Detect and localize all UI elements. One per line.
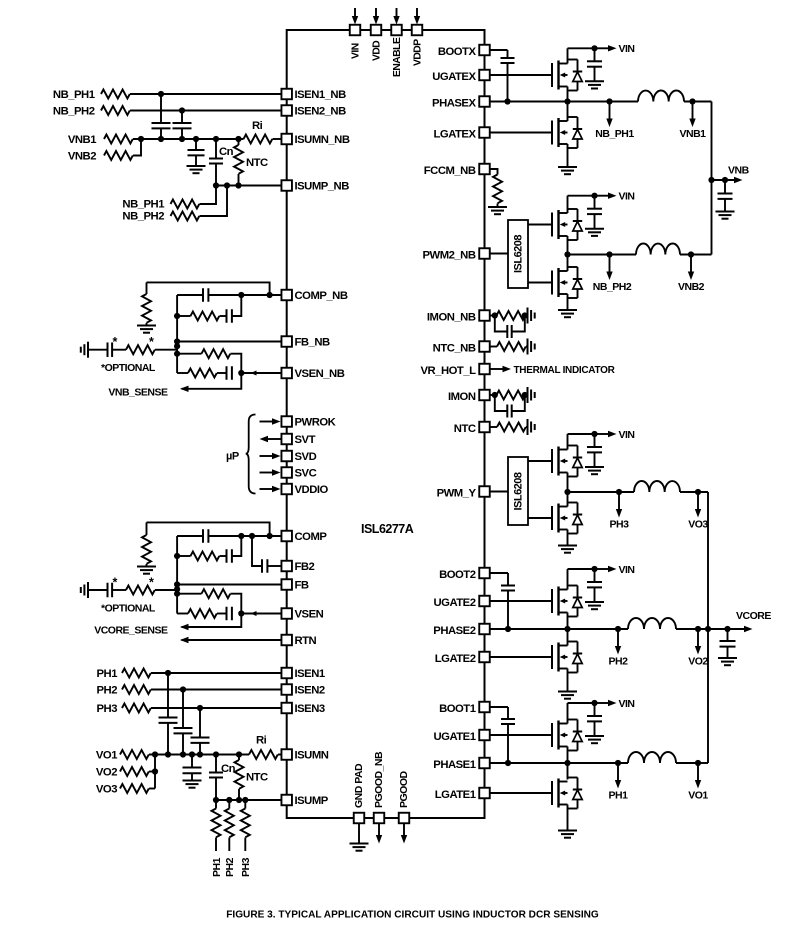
pin GND PAD [354, 813, 365, 824]
resistor PH3 (ISEN3) [97, 703, 151, 715]
pin LGATE2 [479, 652, 490, 663]
svg-text:PH1: PH1 [211, 857, 223, 877]
ground VIN cap X [585, 81, 604, 88]
wire ISUMN line [149, 754, 249, 756]
capacitor COMP_NB C3 [217, 366, 232, 380]
pin label UGATE1 [434, 731, 476, 743]
node VIN arrow 1 [595, 700, 617, 706]
svg-text:COMP_NB: COMP_NB [295, 290, 348, 302]
svg-text:VDDIO: VDDIO [295, 484, 329, 496]
svg-text:NB_PH2: NB_PH2 [53, 106, 95, 118]
junction VIN 1 [591, 700, 597, 706]
pin VR_HOT_L [479, 364, 490, 375]
svg-text:PH2: PH2 [224, 857, 236, 877]
pin label GND PAD [353, 763, 365, 808]
pin label FCCM_NB [424, 165, 476, 177]
junction ISUMN x200 [197, 751, 203, 757]
pin label IMON_NB [427, 311, 476, 323]
ground VNB cap [716, 212, 735, 219]
junction ISUMN x168 [165, 751, 171, 757]
wire Q1 drain [567, 703, 569, 724]
wire COMP rail [176, 536, 178, 614]
svg-text:Cn: Cn [219, 146, 234, 158]
wire VNB rail upper [711, 102, 713, 255]
wire QNB2 drain [567, 196, 569, 213]
IC U1 label ISL6277A [361, 522, 414, 536]
svg-text:Ri: Ri [256, 735, 267, 747]
pin ENABLE [391, 25, 402, 36]
resistor COMP_NB R2 [177, 349, 230, 358]
wire Ri to ISUMN pin [278, 754, 282, 756]
svg-text:IMON_NB: IMON_NB [427, 311, 476, 323]
junction ISUMN x216 [213, 751, 219, 757]
label VIN 1 [619, 698, 635, 710]
node VIN arrow NB2 [595, 193, 617, 199]
capacitor bootstrap 1 [501, 707, 515, 763]
ground IMON (sideways) [528, 387, 535, 403]
svg-text:PH3: PH3 [610, 519, 630, 531]
wire QNB2 source [567, 236, 569, 255]
pin label UGATEX [432, 71, 476, 83]
pin PHASEX [479, 96, 490, 107]
capacitor COMP optional [88, 583, 112, 598]
label VO1 [688, 790, 708, 802]
label VIN Y [619, 429, 635, 441]
junction COMP/FB2 tap [249, 533, 255, 539]
pin label PWROK [295, 417, 337, 429]
svg-text:ISEN1_NB: ISEN1_NB [295, 89, 347, 101]
svg-text:PGOOD_NB: PGOOD_NB [373, 751, 385, 808]
pin SVC [281, 467, 292, 478]
junction COMP_NB rail fb [174, 338, 180, 344]
junction COMP vsen [238, 610, 244, 616]
input arrow PWROK [260, 418, 281, 424]
label VIN NB2 [619, 191, 635, 203]
pin label ISUMP [295, 795, 329, 807]
pin label LGATE1 [435, 789, 476, 801]
pin label ISEN1 [295, 668, 325, 680]
ground IMON_NB (sideways) [528, 308, 535, 324]
junction COMP rail fb [174, 581, 180, 587]
svg-text:PWM_Y: PWM_Y [437, 487, 477, 499]
pin RTN [281, 635, 292, 646]
junction VIN NB2 [591, 193, 597, 199]
junction NB_PH2 phase [606, 251, 612, 257]
wire L1 to VO1 [676, 762, 698, 764]
svg-text:VDDP: VDDP [413, 39, 424, 66]
svg-text:PGOOD: PGOOD [398, 770, 410, 808]
wire COMP r2 down [231, 594, 242, 614]
resistor PH1 (ISUMP) [212, 800, 221, 851]
svg-text:NTC_NB: NTC_NB [433, 342, 476, 354]
wire ISEN2 [151, 689, 282, 691]
capacitor bootstrap X [501, 50, 515, 102]
svg-text:VSEN_NB: VSEN_NB [295, 368, 345, 380]
wire COMP_NB rail [176, 295, 178, 373]
junction ISUMN x192 [189, 751, 195, 757]
input arrow VIN [352, 8, 358, 25]
wire COMP_NB comp pin [241, 294, 281, 296]
output arrow VR_HOT_L [490, 366, 511, 372]
pin label SVD [295, 451, 317, 463]
wire QX2 source [567, 144, 569, 167]
pin label COMP [295, 531, 328, 543]
junction VNB1/VNB2 [138, 136, 144, 142]
junction VCORE cap [724, 626, 730, 632]
label COMP_NB optional star2 [149, 335, 154, 349]
svg-text:NB_PH2: NB_PH2 [122, 211, 164, 223]
svg-text:VIN: VIN [619, 191, 635, 203]
driver U2 ISL6208 [508, 220, 528, 288]
svg-text:VCORE_SENSE: VCORE_SENSE [94, 625, 168, 637]
junction COMP_NB top/comp [267, 292, 273, 298]
wire PHASE1 line [490, 762, 628, 764]
wire VO2/VO3 riser [149, 755, 155, 789]
wire PWM_Y [490, 491, 508, 493]
node VIN arrow X [595, 45, 617, 51]
pin VDDIO [281, 484, 292, 495]
label VCORE_SENSE [94, 625, 168, 637]
wire QY source [567, 473, 569, 493]
body diode Q2 high-side [568, 586, 583, 617]
svg-text:UGATEX: UGATEX [432, 71, 476, 83]
wire COMP vsen pin [241, 611, 281, 616]
svg-text:ISL6208: ISL6208 [513, 235, 525, 273]
junction IMON_NB right [522, 312, 528, 318]
label PH1 (ISUMP) [211, 857, 223, 877]
n-fet Q1 low-side [552, 779, 568, 808]
label PH1 phase [609, 790, 629, 802]
wire ISEN2_NB [130, 110, 282, 112]
pin BOOTX [479, 45, 490, 56]
pin PHASE1 [479, 758, 490, 769]
resistor COMP_NB to ground [142, 282, 151, 325]
n-fet Q2 low-side [552, 643, 568, 672]
junction PH2 phase [615, 626, 621, 632]
pin ISEN3 [281, 703, 292, 714]
junction phase 1 fet [564, 760, 570, 766]
svg-text:*: * [113, 335, 118, 349]
wire LY to VO3 [680, 491, 708, 493]
n-fet Q2 high-side [552, 587, 568, 616]
arrow VO3 [695, 492, 701, 518]
svg-text:NB_PH1: NB_PH1 [595, 128, 634, 140]
thermistor NTC (NB) [234, 139, 268, 186]
capacitor COMP_NB C2 [220, 309, 232, 323]
wire Q1b source [567, 805, 569, 831]
svg-text:BOOT1: BOOT1 [439, 703, 476, 715]
ground VIN cap 2 [585, 602, 604, 609]
body diode Q2 low-side [568, 642, 583, 673]
arrow VO2 [695, 629, 701, 655]
svg-text:GND PAD: GND PAD [353, 763, 365, 808]
inductor L2 [628, 618, 676, 629]
pin COMP [281, 531, 292, 542]
capacitor ISEN3 [191, 708, 210, 755]
inductor LX [638, 90, 684, 101]
svg-text:*OPTIONAL: *OPTIONAL [101, 362, 156, 374]
ground Q2 low-side [558, 692, 577, 699]
svg-text:NTC: NTC [246, 772, 268, 784]
output arrow PGOOD [401, 823, 407, 844]
wire ISEN1_NB [130, 93, 282, 95]
arrow VNB2 [688, 255, 694, 281]
svg-text:VO1: VO1 [96, 750, 117, 762]
junction ISUMP_NB x227 [224, 182, 230, 188]
junction ISUMP x216 [213, 797, 219, 803]
svg-text:ISUMP_NB: ISUMP_NB [295, 181, 350, 193]
resistor COMP optional [112, 586, 177, 595]
svg-text:PHASE2: PHASE2 [433, 625, 475, 637]
svg-text:PHASEX: PHASEX [432, 97, 476, 109]
label uP [226, 451, 239, 463]
driver U3 label [513, 472, 525, 510]
wire Q2b source [567, 669, 569, 692]
pin PWM2_NB [479, 248, 490, 259]
pin FB_NB [281, 336, 292, 347]
junction COMP_NB rail opt [174, 343, 180, 349]
pin label VSEN [295, 609, 324, 621]
junction phase NB2 fet [564, 251, 570, 257]
wire IMON_NB [490, 315, 497, 317]
ground COMP optional (sideways) [81, 582, 88, 598]
junction ISUMP x239 [236, 797, 242, 803]
body diode Q1 high-side [568, 720, 583, 751]
junction VNB2 [688, 251, 694, 257]
pin IMON [479, 390, 490, 401]
wire ISEN1 [151, 672, 282, 674]
n-fet QY high-side [552, 447, 568, 476]
ground Q1 low-side [558, 831, 577, 838]
wire QNB2b source [567, 294, 569, 310]
svg-text:µP: µP [226, 451, 239, 463]
svg-text:VIN: VIN [351, 43, 362, 59]
ground QY low-side [558, 546, 577, 553]
pin VSEN_NB [281, 368, 292, 379]
svg-text:THERMAL INDICATOR: THERMAL INDICATOR [514, 365, 616, 376]
wire Q1 source [567, 747, 569, 764]
arrow VNB1 [689, 102, 695, 128]
capacitor FB2 [252, 536, 282, 573]
svg-text:SVD: SVD [295, 451, 317, 463]
node VNB [712, 177, 743, 183]
label VO2 [688, 656, 708, 668]
resistor VO1 [96, 750, 149, 762]
wire L2 to VO2 [676, 628, 728, 630]
pin VDDP [412, 25, 423, 36]
pin UGATEX [479, 70, 490, 81]
svg-text:VO3: VO3 [688, 519, 708, 531]
label VNB2 [678, 281, 705, 293]
junction COMP_NB C1/jx [238, 292, 244, 298]
junction COMP_NB rail rc1 [174, 313, 180, 319]
svg-text:ISEN2: ISEN2 [295, 685, 325, 697]
resistor Ri (core) [249, 735, 278, 760]
svg-text:PH1: PH1 [609, 790, 629, 802]
pin label PGOOD_NB [373, 751, 385, 808]
label VIN 2 [619, 564, 635, 576]
svg-text:*: * [149, 335, 154, 349]
wire VIN node Y [568, 433, 595, 435]
resistor COMP R1 [177, 552, 219, 561]
pin label PHASEX [432, 97, 476, 109]
pin label SVT [295, 434, 316, 446]
wire QX drain [567, 48, 569, 63]
wire COMP_NB sense [180, 373, 241, 392]
ground QX low-side [558, 167, 577, 174]
svg-text:ISEN1: ISEN1 [295, 668, 325, 680]
resistor NTC [497, 423, 526, 432]
wire Q1b drain [567, 763, 569, 780]
junction NB_PH1 phase X [606, 98, 612, 104]
capacitor COMP C1 [177, 529, 241, 543]
ground VIN cap Y [585, 467, 604, 474]
wire NB_PH1 to ISUMP_NB [200, 186, 217, 205]
resistor VNB2 [68, 151, 133, 163]
pin PGOOD_NB [374, 813, 385, 824]
input arrow ENABLE [393, 8, 399, 25]
pin label PWM2_NB [423, 249, 476, 261]
resistor COMP to ground [142, 522, 151, 566]
junction VIN 2 [591, 566, 597, 572]
svg-text:FCCM_NB: FCCM_NB [424, 165, 476, 177]
wire COMP rc1 up [232, 536, 241, 556]
svg-text:FB_NB: FB_NB [295, 337, 330, 349]
ground ISUMN_NB cap [187, 166, 206, 173]
pin BOOT1 [479, 702, 490, 713]
wire RTN sense [180, 637, 282, 643]
pin label LGATE2 [435, 653, 476, 665]
pin PGOOD [399, 813, 410, 824]
pin label VIN [351, 43, 362, 59]
svg-text:NTC: NTC [246, 157, 268, 169]
wire VIN node 1 [568, 702, 595, 704]
pin label ISEN2 [295, 685, 325, 697]
pin label COMP_NB [295, 290, 348, 302]
pin PHASE2 [479, 624, 490, 635]
wire ISUMP_NB line [216, 185, 282, 187]
wire NB_PH2 to ISUMP_NB [200, 186, 228, 217]
junction VO3 [695, 489, 701, 495]
wire COMP_NB top loop [147, 282, 270, 295]
pin label BOOT2 [439, 569, 476, 581]
thermistor NTC (core) [235, 755, 269, 801]
svg-text:*: * [149, 576, 154, 590]
junction ISUMP x229.3 [226, 797, 232, 803]
ground NTC (sideways) [526, 419, 535, 435]
capacitor VCORE [720, 629, 736, 658]
svg-text:UGATE2: UGATE2 [434, 597, 476, 609]
wire U3 upper gate [528, 460, 552, 462]
junction bootstrap 1/phase [505, 760, 511, 766]
capacitor VIN NB2 [587, 196, 602, 229]
pin label LGATEX [434, 128, 477, 140]
capacitor to ground (ISUMN) [183, 755, 202, 781]
wire QX2 drain [567, 102, 569, 122]
label VNB1 [679, 128, 706, 140]
junction COMP top/comp [267, 533, 273, 539]
junction ISEN2_NB/cap [179, 107, 185, 113]
pin ISUMN_NB [281, 134, 292, 145]
wire COMP fb [177, 584, 281, 586]
ground COMP_NB optional (sideways) [81, 342, 88, 358]
n-fet QNB2 high-side [552, 210, 568, 239]
n-fet QY low-side [552, 504, 568, 533]
resistor NTC_NB [497, 342, 526, 351]
capacitor VIN 1 [587, 703, 602, 736]
junction ISUMN_NB x196 [193, 136, 199, 142]
svg-text:ISEN3: ISEN3 [295, 703, 325, 715]
pin LGATEX [479, 127, 490, 138]
svg-text:ISUMP: ISUMP [295, 795, 329, 807]
wire Ri to ISUMN_NB pin [273, 138, 282, 140]
capacitor ISEN2_NB [173, 111, 192, 140]
label VO3 [688, 519, 708, 531]
label COMP optional star2 [149, 576, 154, 590]
junction VCORE rail/VO2 [705, 626, 711, 632]
input arrow SVD [260, 453, 281, 459]
junction VNB1 [689, 98, 695, 104]
wire COMP_NB fb [177, 341, 281, 343]
wire LGATE2 [490, 656, 552, 658]
label PH3 (ISUMP) [240, 857, 252, 877]
pin BOOT2 [479, 568, 490, 579]
ground COMP resistor [137, 567, 156, 574]
pin label ISEN1_NB [295, 89, 347, 101]
body diode QY low-side [568, 503, 583, 534]
junction ISUMP_NB x216 [213, 182, 219, 188]
junction ISUMN_NB x161 [158, 136, 164, 142]
junction COMP rail rc1 [174, 553, 180, 559]
svg-text:PH2: PH2 [609, 656, 629, 668]
junction COMP_NB vsen [238, 370, 244, 376]
capacitor COMP C2 [220, 549, 232, 563]
node VCORE arrow [728, 626, 753, 632]
svg-text:VIN: VIN [619, 43, 635, 55]
svg-text:PH3: PH3 [240, 857, 252, 877]
pin label NTC [454, 423, 476, 435]
svg-text:VNB: VNB [728, 165, 750, 177]
ground VIN cap 1 [585, 736, 604, 743]
svg-text:FB: FB [295, 580, 309, 592]
wire BOOTX [490, 49, 508, 51]
svg-text:VNB2: VNB2 [678, 281, 705, 293]
capacitor VNB [718, 180, 733, 211]
ground VIN cap NB2 [585, 229, 604, 236]
wire QYb source [567, 530, 569, 546]
wire COMP top loop [147, 522, 270, 536]
svg-text:FB2: FB2 [295, 561, 315, 573]
wire VIN node NB2 [568, 195, 595, 197]
wire VCORE rail to VO1 [698, 762, 708, 764]
wire PHASE2 line [490, 628, 628, 630]
svg-text:ISUMN: ISUMN [295, 750, 329, 762]
wire U3 lower gate [528, 517, 552, 519]
pin label BOOTX [438, 46, 477, 58]
wire VNB2 riser [133, 139, 141, 156]
resistor COMP_NB optional [112, 345, 177, 354]
pin label FB_NB [295, 337, 330, 349]
pin label ISEN3 [295, 703, 325, 715]
svg-text:VNB2: VNB2 [68, 151, 96, 163]
wire QYb drain [567, 492, 569, 507]
svg-text:LGATEX: LGATEX [434, 128, 477, 140]
n-fet Q1 high-side [552, 721, 568, 750]
resistor IMON [497, 391, 526, 400]
svg-text:UGATE1: UGATE1 [434, 731, 476, 743]
wire LNB2 to VNB2 [680, 254, 712, 256]
junction bootstrap 2/phase [505, 626, 511, 632]
